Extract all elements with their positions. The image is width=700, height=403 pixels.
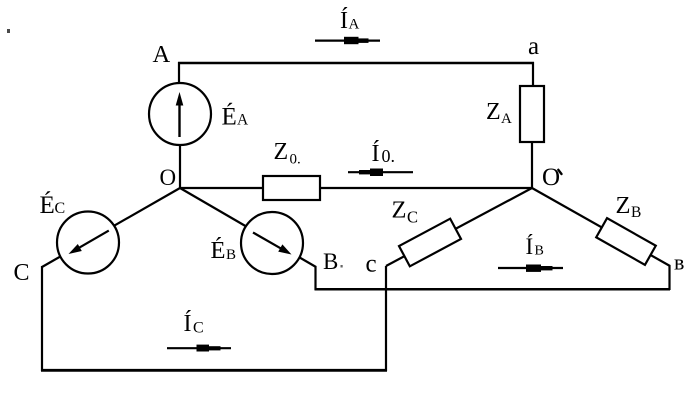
svg-text:É: É	[222, 103, 237, 131]
svg-text:Z: Z	[486, 99, 501, 125]
node O' tick	[558, 170, 561, 174]
resistor ZA	[520, 86, 544, 142]
svg-text:A: A	[153, 41, 171, 68]
svg-text:a: a	[528, 33, 539, 60]
svg-text:Í: Í	[372, 141, 380, 167]
resistor ZB	[596, 218, 656, 265]
svg-text:0.: 0.	[382, 146, 396, 166]
resistor Z0	[263, 176, 320, 200]
svg-text:Í: Í	[184, 311, 192, 337]
svg-text:C: C	[14, 260, 30, 286]
svg-text:в: в	[674, 250, 684, 275]
current arrow IB	[498, 265, 563, 272]
svg-text:A: A	[501, 111, 512, 127]
svg-text:É: É	[211, 236, 226, 264]
svg-text:Z: Z	[392, 197, 407, 224]
svg-text:É: É	[40, 191, 55, 219]
svg-text:O: O	[160, 165, 177, 190]
svg-text:Z: Z	[616, 192, 631, 219]
svg-text:Í: Í	[340, 8, 348, 34]
wire A top horizontal	[178, 62, 534, 65]
wire A node stub	[178, 62, 180, 85]
current arrow IC	[167, 345, 231, 352]
wire bottom C line	[41, 369, 387, 372]
wire O' to c diagonal	[386, 188, 532, 266]
svg-text:A: A	[237, 112, 249, 129]
svg-text:Í: Í	[526, 234, 534, 259]
source EB arrow	[253, 233, 292, 255]
svg-text:O: O	[542, 164, 560, 191]
wire O' to b diagonal	[532, 188, 670, 266]
wire B vertical	[314, 266, 316, 290]
wire neutral O to O'	[180, 187, 532, 189]
svg-text:C: C	[55, 200, 66, 217]
wire C vertical	[41, 266, 43, 371]
wire O to B diagonal	[180, 188, 316, 267]
source EA arrow	[176, 92, 184, 137]
svg-text:c: c	[366, 251, 377, 278]
svg-text:0.: 0.	[290, 151, 301, 167]
wire O to C diagonal	[42, 188, 180, 267]
wire a node stub	[532, 62, 534, 88]
resistor ZC	[399, 219, 461, 267]
svg-text:Z: Z	[274, 139, 289, 165]
svg-text:B: B	[535, 244, 544, 259]
source EC circle	[57, 212, 119, 274]
current arrow I0	[348, 169, 413, 177]
svg-text:A: A	[349, 17, 360, 33]
wire b vertical	[668, 265, 670, 290]
wire c vertical	[385, 266, 387, 371]
source EC arrow	[69, 231, 109, 254]
svg-text:B: B	[323, 249, 338, 274]
current arrow IA	[315, 37, 380, 44]
source EB circle	[241, 212, 303, 274]
svg-text:C: C	[407, 208, 418, 227]
source EA circle	[149, 83, 211, 145]
wire ZA to O'	[531, 141, 533, 189]
svg-text:C: C	[193, 320, 204, 337]
wire EA to O	[179, 143, 181, 189]
stray dot top-left	[7, 29, 10, 33]
wire B horizontal	[315, 288, 671, 291]
svg-text:B: B	[631, 204, 641, 221]
svg-text:B: B	[226, 247, 236, 263]
